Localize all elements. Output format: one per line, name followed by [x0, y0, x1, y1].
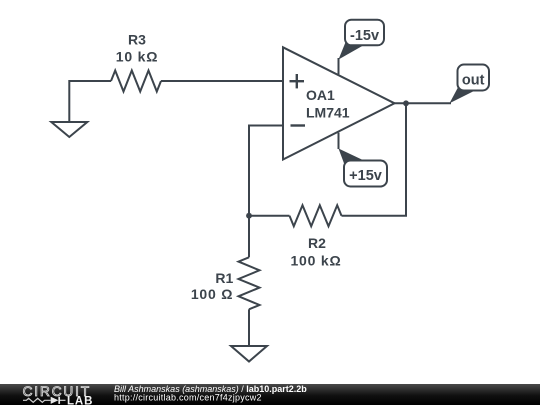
svg-text:LAB: LAB	[67, 396, 93, 405]
footer bar	[0, 384, 540, 405]
net tag out	[450, 65, 490, 104]
wire node down to R1	[248, 216, 250, 258]
wire node up to op-amp - input	[249, 126, 283, 216]
svg-text:100 Ω: 100 Ω	[191, 286, 233, 302]
wire from ground to R3 left lead	[69, 81, 111, 122]
resistor R3	[111, 71, 161, 92]
CircuitLab logo: diode symbol	[51, 397, 59, 404]
svg-text:+15v: +15v	[349, 168, 382, 184]
svg-text:LM741: LM741	[306, 104, 350, 120]
svg-text:R2: R2	[308, 235, 326, 251]
svg-text:-15v: -15v	[350, 28, 379, 44]
op-amp OA1 triangle	[283, 47, 395, 159]
svg-text:OA1: OA1	[306, 87, 335, 103]
resistor R2	[290, 205, 342, 226]
svg-text:R1: R1	[215, 270, 233, 286]
CircuitLab logo: resistor zigzag	[23, 398, 51, 402]
wire op-amp output to out tag	[395, 102, 452, 104]
op-amp V+ pin wire (to -15v)	[338, 58, 340, 74]
op-amp minus input symbol	[291, 124, 306, 126]
svg-text:10 kΩ: 10 kΩ	[116, 49, 158, 65]
wire output node down to feedback row	[342, 103, 407, 215]
node dot at inverting input junction	[246, 213, 252, 219]
wire R2 to inverting node	[249, 215, 290, 217]
op-amp plus input symbol	[290, 74, 305, 88]
ground (bottom, under R1)	[231, 346, 267, 362]
svg-text:out: out	[462, 73, 485, 89]
net tag -15v	[339, 20, 385, 60]
svg-text:R3: R3	[128, 32, 146, 48]
wire R1 to ground	[248, 309, 250, 346]
ground (left, under R3 input)	[51, 122, 87, 137]
op-amp V- pin wire (to +15v)	[338, 133, 340, 149]
wire R3 to op-amp + input	[161, 80, 283, 82]
net tag +15v	[339, 149, 388, 187]
svg-text:100 kΩ: 100 kΩ	[290, 253, 341, 269]
resistor R1	[239, 257, 260, 309]
node dot at op-amp output	[403, 100, 409, 106]
svg-text:http://circuitlab.com/cen7f4zj: http://circuitlab.com/cen7f4zjpycw2	[114, 392, 262, 402]
